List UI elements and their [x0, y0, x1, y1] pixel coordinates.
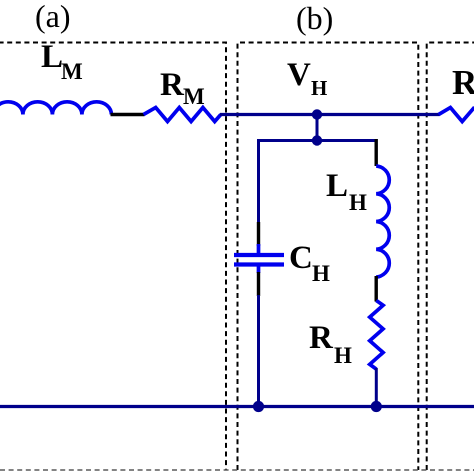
box (a) dashed border	[0, 43, 226, 471]
svg-text:H: H	[349, 190, 367, 215]
svg-text:H: H	[311, 76, 327, 100]
inductor L_H	[376, 166, 389, 277]
svg-text:R: R	[309, 320, 334, 356]
node lower junction dot	[312, 135, 322, 145]
node V_H upper junction dot	[312, 109, 322, 119]
box (b) dashed border	[238, 43, 419, 471]
boxes bottom dashed edge	[0, 469, 474, 471]
svg-text:M: M	[61, 59, 83, 84]
resistor R partial right	[439, 107, 474, 121]
wire node stub vertical	[316, 115, 319, 141]
box (c) dashed border	[427, 43, 474, 471]
wire bottom rail navy	[0, 405, 474, 408]
node bottom right junction dot	[371, 401, 382, 412]
wire capacitor branch lower black segment	[257, 272, 260, 296]
svg-text:M: M	[183, 84, 205, 109]
resistor R_H	[370, 301, 383, 370]
svg-text:R: R	[160, 67, 185, 103]
wire capacitor branch upper vertical navy	[257, 139, 260, 223]
svg-text:(a): (a)	[35, 0, 71, 34]
svg-text:H: H	[312, 261, 330, 286]
svg-text:H: H	[334, 343, 352, 368]
svg-text:C: C	[289, 240, 313, 276]
svg-text:L: L	[326, 168, 348, 204]
wire branch top horizontal	[259, 139, 377, 142]
inductor L_M	[0, 102, 111, 115]
capacitor C_H	[234, 244, 284, 273]
wire capacitor branch upper black segment	[257, 222, 260, 246]
wire inductor branch upper black segment	[375, 139, 378, 166]
svg-text:R: R	[452, 63, 474, 102]
wire black between L_M and R_M	[111, 113, 145, 117]
wire below R_H navy	[375, 368, 378, 407]
node bottom left junction dot	[253, 401, 264, 412]
resistor R_M	[144, 108, 221, 122]
wire between L_H and R_H black	[375, 276, 378, 302]
svg-text:V: V	[287, 57, 311, 93]
svg-text:L: L	[41, 39, 63, 75]
wire capacitor branch lower vertical navy	[257, 295, 260, 407]
svg-text:(b): (b)	[296, 0, 333, 36]
wire top rail navy	[220, 113, 440, 116]
